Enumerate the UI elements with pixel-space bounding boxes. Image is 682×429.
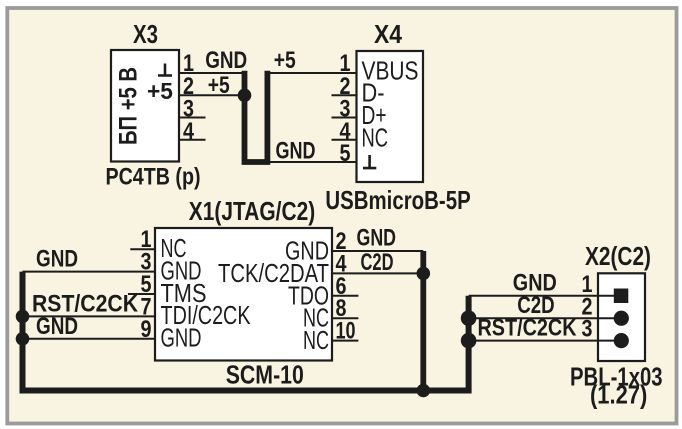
X1 pin 9 number bbox=[141, 316, 152, 343]
X4 internal label D- bbox=[362, 80, 385, 108]
wire GND from X2 bus to X2 pin 1 bbox=[469, 295, 616, 297]
wire GND from bus to X4 pin 5 bbox=[267, 161, 356, 163]
X1 pin 7 number bbox=[141, 293, 152, 320]
X4 internal ground symbol bbox=[363, 155, 376, 168]
X1 pin 5 number bbox=[141, 271, 152, 298]
wire GND from left bus to X1 pin 3 bbox=[23, 271, 156, 273]
svg-text:+5: +5 bbox=[147, 78, 173, 104]
svg-text:X3: X3 bbox=[133, 21, 158, 49]
svg-text:USBmicroB-5P: USBmicroB-5P bbox=[325, 185, 470, 215]
svg-text:БП +5 В: БП +5 В bbox=[115, 67, 143, 145]
X3 pin 2 number bbox=[183, 73, 194, 100]
net label GND (X1 pin 9) bbox=[36, 313, 78, 340]
X1 internal label GND pin3 bbox=[161, 257, 202, 285]
connector X4 body bbox=[357, 51, 424, 182]
X1 pin 4 number bbox=[336, 250, 348, 277]
svg-text:GND: GND bbox=[357, 224, 397, 251]
X2 pin 2 round pad bbox=[614, 311, 629, 326]
svg-text:GND: GND bbox=[36, 313, 78, 340]
net label GND (X2 pin 1) bbox=[513, 270, 557, 297]
X4 internal label D+ bbox=[362, 102, 387, 130]
svg-text:+5: +5 bbox=[208, 72, 230, 99]
X1 pin 6 stub bbox=[332, 295, 358, 297]
X2 part pitch (1.27) bbox=[590, 380, 647, 410]
svg-text:PC4TB (p): PC4TB (p) bbox=[106, 164, 201, 191]
X1 pin 8 number bbox=[336, 295, 347, 322]
X1 pin 10 stub bbox=[332, 340, 358, 342]
svg-text:NC: NC bbox=[303, 327, 329, 355]
wire C2D from X2 bus to X2 pin 2 bbox=[469, 317, 616, 319]
X4 pin 4 number bbox=[340, 118, 352, 145]
junction dot C2D on right bus bbox=[417, 267, 431, 281]
X1 internal label NC pin10 bbox=[303, 327, 329, 355]
svg-text:GND: GND bbox=[161, 325, 202, 353]
X4 pin 3 stub bbox=[332, 117, 357, 119]
net label C2D (X2 pin 2) bbox=[517, 292, 554, 319]
svg-text:GND: GND bbox=[36, 245, 78, 272]
X3 pin 1 number bbox=[183, 50, 194, 77]
X1 pin 6 number bbox=[336, 273, 347, 300]
wire GND from X1 pin 2 to right bus bbox=[332, 250, 423, 252]
X4 pin 5 number bbox=[340, 140, 351, 167]
net label RST/C2CK (X1 pin 7) bbox=[32, 291, 139, 318]
X2 pin 2 number bbox=[582, 293, 593, 320]
connector X2 body bbox=[598, 273, 645, 361]
X4 pin 2 number bbox=[340, 73, 351, 100]
svg-text:X4: X4 bbox=[374, 21, 403, 49]
net label +5 (X3 pin 2) bbox=[208, 72, 230, 99]
svg-text:X2(C2): X2(C2) bbox=[585, 243, 651, 271]
net label GND (to X4 pin 5) bbox=[276, 138, 316, 165]
junction dot RST/C2CK on X2 bus bbox=[461, 333, 477, 349]
net label GND (X1 pin 2) bbox=[357, 224, 397, 251]
junction dot RST/C2CK on left bus bbox=[16, 310, 30, 324]
X4 pin 3 number bbox=[340, 96, 351, 123]
wire GND from X3 pin 1 to bus bbox=[179, 72, 246, 74]
X1 pin 2 number bbox=[336, 228, 347, 255]
net label GND (X3 pin 1) bbox=[205, 47, 247, 74]
X1 pin 3 number bbox=[141, 249, 152, 276]
svg-text:3: 3 bbox=[582, 316, 593, 343]
X3 pin 3 number bbox=[183, 96, 194, 123]
svg-text:NC: NC bbox=[362, 125, 389, 153]
X2 pin 3 round pad bbox=[614, 333, 629, 348]
svg-text:+5: +5 bbox=[274, 47, 296, 74]
X3 part name PC4TB (p) bbox=[106, 164, 201, 191]
X3 internal label БП +5 В (rotated) bbox=[115, 67, 143, 145]
X4 pin 4 stub bbox=[332, 139, 357, 141]
svg-text:GND: GND bbox=[276, 138, 316, 165]
junction dot GND on left bus bbox=[16, 332, 30, 346]
X1 pin 1 number bbox=[141, 226, 152, 253]
X3 pin 3 stub bbox=[179, 117, 206, 119]
X2 pin 3 number bbox=[582, 316, 593, 343]
X1 internal label TDO pin6 bbox=[288, 282, 329, 310]
svg-text:9: 9 bbox=[141, 316, 152, 343]
X3 pin 4 stub bbox=[179, 139, 206, 141]
wire RST/C2CK from X2 bus to X2 pin 3 bbox=[469, 340, 616, 342]
wire +5 from X3 pin 2 to bus junction bbox=[179, 94, 245, 96]
junction dot C2D on X2 bus bbox=[461, 310, 477, 326]
X1 pin 10 number bbox=[336, 318, 356, 345]
X4 pin 1 number bbox=[340, 50, 351, 77]
X2 designator X2(C2) bbox=[585, 243, 651, 271]
X3 designator bbox=[133, 21, 158, 49]
X1 internal label NC pin1 bbox=[161, 235, 187, 263]
header X1 body bbox=[155, 228, 332, 361]
wire GND from left bus to X1 pin 9 bbox=[23, 338, 156, 340]
X1 internal label GND pin2 bbox=[285, 238, 329, 266]
X3 internal ground symbol bbox=[158, 64, 172, 76]
net label C2D (X1 pin 4) bbox=[361, 249, 394, 276]
svg-text:(1.27): (1.27) bbox=[590, 380, 647, 410]
left bus vertical and bottom bus horizontal and X2 bus vertical bbox=[23, 272, 469, 391]
X1 internal label TDI/C2CK pin7 bbox=[161, 302, 251, 330]
X4 designator bbox=[374, 21, 403, 49]
wire C2D from X1 pin 4 to right bus junction bbox=[332, 272, 423, 274]
right bus vertical (X1 pins 2,4) bbox=[420, 251, 426, 391]
X4 internal label VBUS bbox=[362, 58, 419, 86]
net label RST/C2CK (X2 pin 3) bbox=[478, 315, 578, 342]
X1 pin 8 stub bbox=[332, 317, 358, 319]
X2 part name PBL-1x03 bbox=[570, 362, 663, 392]
X1 internal label GND pin9 bbox=[161, 325, 202, 353]
X1 internal label TCK/C2DAT pin4 bbox=[218, 260, 329, 288]
svg-text:X1(JTAG/C2): X1(JTAG/C2) bbox=[189, 198, 315, 226]
svg-text:5: 5 bbox=[340, 140, 351, 167]
X4 internal label NC bbox=[362, 125, 389, 153]
X1 designator X1(JTAG/C2) bbox=[189, 198, 315, 226]
X3 internal label +5 bbox=[147, 78, 173, 104]
X1 part name SCM-10 bbox=[226, 360, 304, 390]
bus (thick group wire) between X3 and X4 bbox=[245, 71, 268, 162]
net label +5 (to X4 pin 1) bbox=[274, 47, 296, 74]
X4 pin 2 stub bbox=[332, 94, 357, 96]
junction dot +5 on bus bbox=[238, 89, 252, 103]
svg-text:GND: GND bbox=[205, 47, 247, 74]
X1 internal label TMS pin5 bbox=[161, 280, 207, 308]
X1 internal label NC pin8 bbox=[303, 305, 329, 333]
junction dot right bus to bottom bus bbox=[417, 384, 431, 398]
X2 pin 1 number bbox=[582, 271, 593, 298]
X1 pin 1 stub bbox=[130, 248, 155, 250]
connector X3 body bbox=[111, 50, 179, 162]
net label GND (X1 pin 3) bbox=[36, 245, 78, 272]
X1 pin 5 stub bbox=[128, 293, 155, 295]
svg-text:C2D: C2D bbox=[361, 249, 394, 276]
X2 pin 1 square pad bbox=[614, 289, 629, 304]
X4 part name USBmicroB-5P bbox=[325, 185, 470, 215]
wire +5 from bus to X4 pin 1 bbox=[267, 72, 356, 74]
wire RST/C2CK from left bus to X1 pin 7 bbox=[23, 315, 156, 317]
X3 pin 4 number bbox=[183, 118, 195, 145]
svg-text:SCM-10: SCM-10 bbox=[226, 360, 304, 390]
